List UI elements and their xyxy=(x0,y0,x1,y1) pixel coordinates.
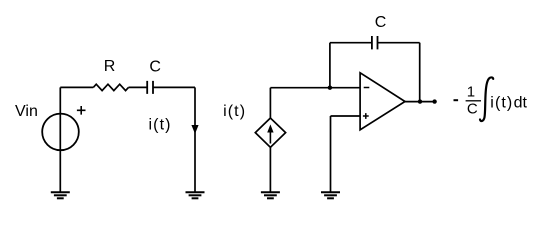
wire right vertical down xyxy=(194,87,196,192)
ground (under current source) xyxy=(261,192,280,198)
wire feedback right vertical xyxy=(419,43,421,102)
svg-text:i(t): i(t) xyxy=(490,95,513,112)
wire feedback left vertical xyxy=(329,43,331,88)
arrow inside current source xyxy=(269,131,271,144)
wire capacitor to right corner xyxy=(153,86,195,88)
minus mark inverting input xyxy=(364,87,370,89)
wire op-amp output xyxy=(405,101,435,103)
svg-text:1: 1 xyxy=(467,83,475,100)
formula integral sign xyxy=(480,77,493,121)
resistor R xyxy=(93,84,128,90)
svg-text:i(t): i(t) xyxy=(223,103,246,120)
wire top-left horizontal xyxy=(60,86,93,88)
wire current source bottom lead xyxy=(269,147,271,192)
svg-text:C: C xyxy=(467,100,478,117)
svg-text:dt: dt xyxy=(514,95,528,112)
wire feedback top left horizontal xyxy=(330,42,372,44)
plus mark non-inverting input xyxy=(363,113,369,119)
svg-text:R: R xyxy=(104,58,116,75)
formula fraction bar xyxy=(466,100,481,102)
wire non-inverting input horizontal xyxy=(331,115,361,117)
plus mark of source xyxy=(77,106,86,115)
svg-text:i(t): i(t) xyxy=(149,117,172,134)
svg-text:Vin: Vin xyxy=(15,103,38,120)
ground (under Vin source) xyxy=(51,192,70,198)
wire left vertical through source xyxy=(59,87,61,192)
junction dot feedback/output xyxy=(418,99,422,103)
wire resistor to capacitor xyxy=(129,86,148,88)
wire current source to op-amp inverting input xyxy=(270,87,360,89)
current source I1 diamond xyxy=(255,118,285,147)
svg-text:C: C xyxy=(375,14,387,31)
formula minus sign xyxy=(454,99,459,101)
wire non-inverting down to ground xyxy=(330,116,332,192)
voltage source Vin circle xyxy=(42,114,79,151)
current direction arrow down xyxy=(192,125,198,132)
output terminal dot xyxy=(432,99,436,103)
junction node dot xyxy=(328,86,332,90)
wire feedback top right horizontal xyxy=(378,42,420,44)
op-amp U1 triangle xyxy=(360,73,405,130)
capacitor C (feedback) xyxy=(372,36,378,49)
ground (under i(t) arrow) xyxy=(186,192,205,198)
svg-text:C: C xyxy=(149,59,161,76)
wire current source top lead xyxy=(269,88,271,118)
capacitor C (left circuit) xyxy=(147,81,153,94)
ground (non-inverting input) xyxy=(321,192,340,198)
